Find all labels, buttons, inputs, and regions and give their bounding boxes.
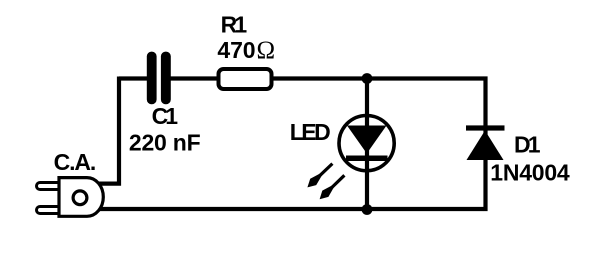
svg-text:C.A.: C.A. [54, 149, 97, 175]
LED light arrow 2 [320, 175, 345, 199]
resistor R1 body [219, 69, 272, 89]
svg-text:220 nF: 220 nF [129, 129, 201, 155]
wire top segment from left corner to capacitor left plate [119, 76, 149, 80]
svg-text:Ω: Ω [257, 37, 276, 64]
plug bottom prong [37, 207, 63, 214]
wire top segment from resistor to top-right corner [270, 76, 484, 80]
wire LED branch vertical [365, 79, 369, 210]
svg-text:D1: D1 [514, 132, 541, 158]
svg-text:C1: C1 [152, 103, 179, 129]
AC plug body [59, 178, 103, 217]
junction node at LED bottom [362, 204, 373, 215]
LED triangle (anode) [347, 126, 387, 154]
diode D1 triangle [467, 131, 504, 161]
svg-text:LED: LED [290, 119, 331, 145]
svg-text:R1: R1 [221, 12, 248, 38]
wire right vertical (diode branch) [483, 76, 487, 211]
wire top segment from capacitor right plate to resistor [168, 76, 220, 80]
LED cathode bar [346, 156, 388, 162]
LED circle [339, 116, 394, 171]
wire bottom horizontal from plug to bottom-right corner [100, 207, 484, 211]
wire left vertical from top wire down to plug [99, 77, 119, 184]
LED light arrow 1 [307, 164, 332, 188]
junction node at LED top [362, 73, 373, 84]
capacitor C1 plates [147, 52, 157, 105]
plug top prong [37, 183, 63, 190]
plug hole [73, 191, 87, 205]
svg-text:1N4004: 1N4004 [490, 160, 570, 186]
diode D1 cathode bar [466, 125, 505, 130]
svg-text:470: 470 [217, 37, 255, 63]
